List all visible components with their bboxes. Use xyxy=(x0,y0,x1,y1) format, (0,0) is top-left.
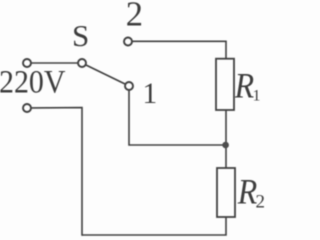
terminal upper-left xyxy=(23,59,31,67)
svg-text:2: 2 xyxy=(126,0,143,33)
switch S pivot terminal xyxy=(78,59,86,67)
terminal lower-left xyxy=(23,104,31,112)
switch contact 1 terminal xyxy=(125,82,133,90)
wire R1 bottom to junction to R2 top xyxy=(225,110,227,168)
wire R2 bottom to bottom rail xyxy=(82,217,226,235)
switch lever S xyxy=(86,65,126,84)
svg-text:S: S xyxy=(72,18,89,53)
resistor R1 xyxy=(216,59,234,110)
svg-text:2: 2 xyxy=(256,192,266,213)
svg-text:220V: 220V xyxy=(0,65,66,101)
wire contact1 down and right to junction xyxy=(129,90,226,145)
svg-text:R: R xyxy=(237,172,257,212)
wire terminal to switch pivot xyxy=(31,62,77,64)
switch contact 2 terminal xyxy=(124,38,132,46)
resistor R2 xyxy=(217,168,235,217)
svg-text:1: 1 xyxy=(253,88,261,105)
wire bottom rail up left side to lower terminal xyxy=(31,108,82,236)
svg-text:R: R xyxy=(234,66,254,106)
wire contact2 to R1 top xyxy=(132,41,226,58)
svg-text:1: 1 xyxy=(143,78,158,110)
junction node dot xyxy=(222,142,229,149)
